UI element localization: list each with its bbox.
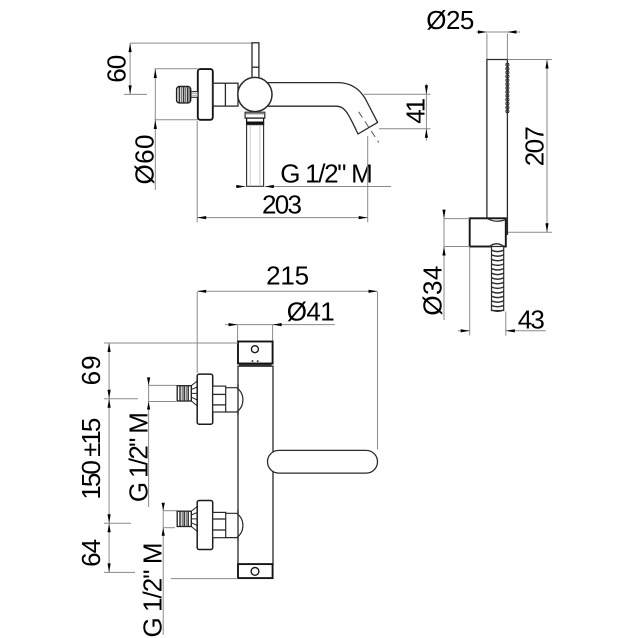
svg-text:207: 207 bbox=[520, 126, 550, 166]
dim 207 ext bottom bbox=[507, 231, 552, 233]
spout flow axis (dashed) bbox=[359, 112, 379, 143]
dim Ø25 ext right bbox=[506, 34, 508, 60]
svg-text:G 1/2" M: G 1/2" M bbox=[138, 543, 168, 638]
dim 60 arrow down bbox=[129, 85, 132, 94]
svg-text:60: 60 bbox=[102, 55, 132, 83]
wall plate bbox=[198, 69, 213, 120]
dim Ø41 ext left (body left) bbox=[237, 325, 239, 341]
upper G1/2 arrow up bbox=[147, 402, 150, 410]
upper G1/2 arrow down bbox=[147, 377, 150, 385]
upper G1/2 dim line bbox=[148, 378, 150, 508]
dim 41 arrow down (above top ext) bbox=[425, 85, 428, 94]
dim Ø34 ext bottom (bracket bottom) bbox=[444, 246, 470, 248]
dim G1/2 line right segment bbox=[265, 186, 391, 188]
dim 215 arrow left bbox=[197, 290, 206, 293]
chain tick at lower inlet bbox=[104, 522, 131, 524]
svg-text:Ø60: Ø60 bbox=[129, 135, 159, 185]
collar ring 1 bbox=[245, 112, 265, 118]
svg-text:150 ±15: 150 ±15 bbox=[76, 418, 106, 500]
dim 60 arrow up bbox=[129, 43, 132, 52]
dim Ø60 line bbox=[154, 69, 156, 190]
stick joint line bbox=[252, 66, 259, 68]
outlet tube bbox=[247, 125, 264, 187]
dim Ø25 arrow right-pointing bbox=[478, 30, 487, 33]
dim 41 arrow up (below bottom ext) bbox=[425, 129, 428, 138]
svg-text:Ø34: Ø34 bbox=[418, 266, 448, 316]
svg-text:Ø41: Ø41 bbox=[287, 297, 335, 327]
collar ring 2 bbox=[247, 118, 264, 125]
top bracket screw bbox=[251, 346, 258, 353]
dim 41 ext top (spout bend) bbox=[364, 93, 431, 95]
dim 215 ext left (plate) bbox=[196, 292, 198, 373]
dim Ø34 arrow down (above) bbox=[442, 210, 445, 219]
upper inlet nipple (threaded) bbox=[177, 386, 191, 401]
lower inlet ext bottom (nipple bottom) bbox=[163, 527, 175, 529]
upper inlet escutcheon plate bbox=[197, 374, 213, 424]
spray nozzle dots bbox=[506, 63, 509, 112]
dim 43 ext right (bracket right) bbox=[505, 312, 507, 336]
lower inlet escutcheon plate bbox=[197, 501, 213, 550]
dim Ø41 arrow right-pointing bbox=[229, 323, 238, 326]
dim Ø60 arrow up at plate bottom bbox=[154, 120, 157, 129]
dim 203 arrow right bbox=[359, 216, 368, 219]
chain ext top (body top) bbox=[104, 342, 238, 344]
dim 203 arrow left bbox=[197, 216, 206, 219]
bottom wall bracket bbox=[238, 564, 273, 578]
upper inlet boss on body bbox=[226, 388, 243, 412]
(see ext tick above) bbox=[108, 390, 111, 399]
knob stem bbox=[191, 92, 198, 98]
dim 207 line bbox=[546, 60, 548, 233]
svg-text:41: 41 bbox=[401, 98, 431, 124]
dim Ø60 ext bottom (plate bottom) bbox=[155, 119, 198, 121]
lower inlet cone bbox=[191, 507, 197, 532]
top wall bracket bbox=[238, 342, 273, 364]
mixer sphere bbox=[238, 77, 272, 111]
chain arrow up at top bbox=[108, 343, 111, 352]
dim 207 ext top bbox=[507, 59, 552, 61]
hose connector threaded shank bbox=[492, 247, 504, 312]
upper inlet cone bbox=[191, 381, 197, 406]
faucet body horizontal bbox=[213, 83, 238, 106]
svg-text:G 1/2" M: G 1/2" M bbox=[280, 159, 373, 189]
holder bracket bbox=[470, 218, 506, 246]
chain tick at bottom bbox=[104, 571, 135, 573]
lower G1/2 dim line bbox=[162, 503, 164, 635]
svg-text:43: 43 bbox=[518, 305, 545, 335]
svg-text:64: 64 bbox=[76, 539, 106, 567]
dim Ø34 line bbox=[443, 210, 445, 321]
dim G1/2 arrow left-pointing bbox=[265, 185, 274, 188]
bracket seat curve bbox=[487, 218, 506, 221]
dim 43 line left segment bbox=[458, 330, 470, 332]
dim 215 line bbox=[197, 290, 377, 292]
dim G1/2 line left segment bbox=[236, 186, 245, 188]
dim 203 line bbox=[197, 217, 368, 219]
lower inlet boss on body bbox=[226, 513, 243, 537]
svg-text:G 1/2" M: G 1/2" M bbox=[123, 412, 153, 502]
dim 60 line bbox=[129, 43, 131, 94]
svg-text:215: 215 bbox=[266, 260, 309, 290]
dim 41 ext bottom (spout outlet) bbox=[379, 128, 431, 130]
dim Ø60 ext top (plate top) bbox=[155, 68, 198, 70]
dim 60 tick at centerline bbox=[124, 93, 147, 95]
dim 207 arrow up bbox=[545, 60, 548, 69]
svg-text:69: 69 bbox=[76, 355, 106, 385]
upper inlet ext bottom (nipple bottom) bbox=[149, 401, 176, 403]
lower inlet nipple (threaded) bbox=[177, 511, 191, 526]
lower inlet hex connector bbox=[213, 512, 226, 537]
lower G1/2 arrow down bbox=[162, 503, 165, 511]
top bracket flange line bbox=[239, 364, 272, 366]
dim Ø25 arrow left-pointing bbox=[507, 30, 516, 33]
upper inlet: ext tick (center) bbox=[104, 398, 138, 400]
dim 215 arrow right bbox=[369, 290, 378, 293]
dim 43 arrow left-pointing bbox=[506, 329, 515, 332]
knob (knurled) bbox=[177, 87, 191, 103]
mixer body column bbox=[238, 366, 273, 564]
lever stick bbox=[252, 43, 259, 78]
dim Ø60 arrow up at plate top bbox=[154, 69, 157, 78]
left chain dim line bbox=[108, 343, 110, 572]
lever handle bbox=[268, 450, 378, 473]
dim Ø25 line bbox=[476, 31, 520, 33]
lower inlet ext top (nipple top) bbox=[163, 510, 177, 512]
dim Ø25 ext left bbox=[486, 34, 488, 60]
dim Ø41 arrow left-pointing bbox=[273, 323, 282, 326]
upper inlet ext top (nipple top) bbox=[149, 384, 178, 386]
bottom bracket ext line left bbox=[171, 578, 238, 580]
bottom bracket screw bbox=[251, 568, 259, 576]
svg-text:Ø25: Ø25 bbox=[426, 5, 474, 35]
lower G1/2 arrow up bbox=[162, 528, 165, 536]
dim 41 line bbox=[425, 84, 427, 141]
dim 203 ext right (from spout tip) bbox=[367, 136, 369, 222]
shower stick body bbox=[487, 60, 508, 236]
dim 215 ext right (lever tip) bbox=[377, 292, 379, 450]
dim 43 arrow right-pointing bbox=[461, 329, 470, 332]
spout bbox=[263, 83, 378, 134]
upper inlet hex connector bbox=[213, 386, 226, 412]
dim Ø34 arrow up (below) bbox=[442, 247, 445, 256]
stick through bracket bbox=[506, 218, 508, 235]
dim Ø41 ext right (body right) bbox=[272, 325, 274, 341]
dim Ø34 ext top (bracket top) bbox=[444, 218, 470, 220]
dim 43 line right segment bbox=[506, 330, 546, 332]
dim 60 extension line (stick top) bbox=[130, 42, 252, 44]
dim 203 ext left (from plate) bbox=[196, 121, 198, 222]
dim G1/2 arrow right-pointing bbox=[236, 185, 245, 188]
svg-text:203: 203 bbox=[262, 190, 302, 220]
dim 43 ext left (bracket left) bbox=[469, 248, 471, 336]
hose connector dome bbox=[490, 244, 504, 247]
top bracket dots bbox=[252, 360, 254, 362]
body joint line bbox=[224, 83, 226, 106]
dim Ø41 line bbox=[225, 324, 335, 326]
dim 207 arrow down bbox=[545, 223, 548, 232]
